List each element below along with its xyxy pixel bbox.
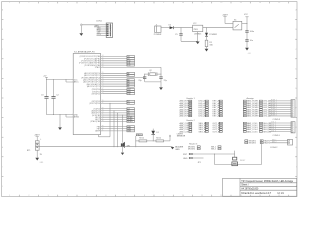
wire down to C5 <box>180 28 182 34</box>
wire from IC pin down to rail 2 <box>117 113 119 147</box>
svg-text:H: H <box>2 147 4 149</box>
IC1 pin XTAL2 wire to crystal <box>101 77 103 79</box>
svg-text:Header 3: Header 3 <box>189 144 198 146</box>
svg-text:J: J <box>2 186 3 188</box>
svg-text:1: 1 <box>9 195 10 197</box>
wire C5 to ground rail <box>180 35 182 41</box>
resistor row 6 to CON2 <box>243 111 246 113</box>
svg-text:18: 18 <box>102 64 104 66</box>
svg-text:+BATT: +BATT <box>222 14 229 17</box>
capacitor C2 lower lead <box>53 98 55 114</box>
svg-text:D3: D3 <box>127 103 129 105</box>
svg-text:9: 9 <box>163 2 164 4</box>
svg-text:RESET: RESET <box>240 160 245 162</box>
ground below R1 <box>205 49 209 52</box>
diode D1 <box>151 131 155 135</box>
crystal Q2 16MHz <box>148 72 157 76</box>
svg-text:8: 8 <box>144 2 145 4</box>
IC1 right-side pins group E <box>101 100 103 102</box>
svg-text:21: 21 <box>102 74 104 76</box>
svg-text:JP1: JP1 <box>198 162 201 164</box>
svg-text:ROW_2: ROW_2 <box>271 102 277 104</box>
svg-text:KiCad E.D.A. eeschema 4.0.7: KiCad E.D.A. eeschema 4.0.7 <box>241 192 272 195</box>
svg-text:PIEZO: PIEZO <box>137 135 143 137</box>
resistor row 8 to CON2 <box>243 115 246 117</box>
capacitor C4 <box>245 40 248 41</box>
svg-text:SW_1: SW_1 <box>272 139 276 141</box>
svg-text:10: 10 <box>182 2 184 4</box>
IC1 pin XTAL1 wire to crystal <box>101 66 103 68</box>
svg-text:37: 37 <box>102 118 104 120</box>
svg-text:VCC: VCC <box>244 14 249 16</box>
svg-text:11: 11 <box>201 195 203 197</box>
speaker SP1 <box>121 142 125 148</box>
wire AVCC vertical <box>65 80 67 82</box>
ground below speaker <box>121 153 124 155</box>
svg-text:(INT0)PD2: (INT0)PD2 <box>92 93 100 95</box>
capacitor C7 <box>159 77 162 78</box>
ground below crystal <box>159 87 163 90</box>
svg-text:+: + <box>40 138 42 140</box>
vertical from rail up to label <box>135 136 137 147</box>
svg-text:A: A <box>2 9 4 12</box>
svg-text:10u: 10u <box>250 40 253 42</box>
svg-text:100n: 100n <box>250 31 254 33</box>
svg-text:17: 17 <box>102 62 104 64</box>
resistor row 7 to CON2 <box>243 113 246 115</box>
svg-text:9: 9 <box>163 195 164 197</box>
title block <box>223 178 297 196</box>
svg-text:38: 38 <box>102 120 104 122</box>
svg-text:B: B <box>2 29 4 31</box>
svg-text:COL_4: COL_4 <box>271 128 276 130</box>
speaker ground stub <box>122 147 124 153</box>
svg-text:5: 5 <box>86 2 87 4</box>
svg-text:4: 4 <box>110 31 111 33</box>
svg-text:28: 28 <box>102 90 104 92</box>
switch row 1 to CON4 <box>245 140 248 142</box>
net labels at CON1 <box>94 25 101 36</box>
svg-text:6: 6 <box>105 195 106 197</box>
svg-text:ROW_1: ROW_1 <box>271 100 277 102</box>
wire diode to regulator <box>173 27 192 29</box>
ground below battery <box>35 158 39 161</box>
svg-text:12: 12 <box>220 2 222 4</box>
wire LED to R1 <box>206 36 208 40</box>
wire switch to VCC node <box>242 23 247 25</box>
svg-text:E: E <box>2 88 4 90</box>
power flag +BATT <box>223 17 226 24</box>
ground below C4 <box>245 48 249 51</box>
connector CON3 <box>291 122 295 133</box>
IC1 left-side pin GND <box>70 114 73 116</box>
svg-text:2: 2 <box>28 2 29 4</box>
svg-text:I: I <box>2 166 3 168</box>
ground rail under crystal <box>160 78 162 82</box>
ground below CON1 <box>79 33 83 36</box>
svg-text:SENSOR: SENSOR <box>177 136 186 138</box>
wire to crystal ground <box>160 82 162 87</box>
svg-text:7: 7 <box>125 2 126 4</box>
capacitor C2 leads <box>53 80 55 97</box>
svg-text:36: 36 <box>102 116 104 118</box>
svg-text:30: 30 <box>102 100 104 102</box>
svg-text:5: 5 <box>110 33 111 35</box>
svg-text:35: 35 <box>102 114 104 116</box>
svg-text:2: 2 <box>28 195 29 197</box>
svg-text:(XCK/T0)PD4: (XCK/T0)PD4 <box>89 103 100 105</box>
resistor row 3 to CON3 <box>243 127 246 129</box>
svg-text:ROW3: ROW3 <box>127 121 132 123</box>
svg-text:GND: GND <box>183 158 188 160</box>
ground below regulator <box>196 42 200 45</box>
svg-text:MODE2: MODE2 <box>188 149 196 151</box>
svg-text:XTAL1: XTAL1 <box>95 66 100 69</box>
regulator ground pin wire <box>197 32 199 42</box>
ground rail below caps <box>47 114 71 116</box>
svg-text:ROW_3: ROW_3 <box>271 104 277 106</box>
svg-text:12: 12 <box>220 195 222 197</box>
connector CON4 <box>288 139 293 145</box>
svg-text:C3: C3 <box>41 95 43 97</box>
svg-text:A5: A5 <box>127 85 129 88</box>
net label box above rail <box>136 134 142 136</box>
ground rail wire <box>181 40 198 42</box>
svg-text:MODE2: MODE2 <box>249 143 257 145</box>
svg-text:2: 2 <box>110 26 111 28</box>
svg-text:5: 5 <box>86 195 87 197</box>
power flag above battery <box>36 137 39 141</box>
svg-text:1: 1 <box>110 24 111 26</box>
wire rail to R3 <box>120 146 173 148</box>
wire lower horizontal <box>215 164 262 166</box>
svg-text:R3 1k: R3 1k <box>139 138 144 140</box>
wire to R3 <box>136 140 139 142</box>
svg-text:3: 3 <box>48 195 49 197</box>
wire R1 to ground <box>206 47 208 49</box>
svg-text:COL_2: COL_2 <box>271 124 276 126</box>
svg-text:GND: GND <box>40 162 44 164</box>
svg-text:POWER: POWER <box>154 34 162 36</box>
wire switch S2 top <box>234 151 236 157</box>
svg-text:RST: RST <box>183 154 188 156</box>
svg-text:ROW_5: ROW_5 <box>271 108 277 110</box>
IC1 left-side pin VCC <box>70 79 73 81</box>
svg-text:I: I <box>296 166 297 168</box>
svg-text:40: 40 <box>102 127 104 129</box>
svg-text:41: 41 <box>102 130 104 132</box>
connector CON2 <box>291 100 295 118</box>
wire flag to switch <box>225 23 233 25</box>
svg-text:33: 33 <box>102 109 104 111</box>
svg-text:330: 330 <box>209 45 213 47</box>
wire VCC node down to caps <box>246 24 248 31</box>
wire to LED D3 <box>206 28 208 33</box>
svg-text:+BATT: +BATT <box>34 134 40 137</box>
wire from IC pin down to speaker <box>122 115 124 143</box>
svg-text:22p: 22p <box>138 80 141 82</box>
svg-text:TR: Frequenzmesser, MODE-Switc: TR: Frequenzmesser, MODE-Switch, LED-Anz… <box>241 180 294 183</box>
svg-text:3: 3 <box>110 29 111 31</box>
junction node <box>180 26 183 29</box>
svg-text:CTS: CTS <box>97 34 102 36</box>
svg-text:R4 1k: R4 1k <box>156 138 161 140</box>
svg-text:7805: 7805 <box>193 29 198 31</box>
capacitor C1 <box>245 31 248 32</box>
svg-text:CON2-8: CON2-8 <box>273 119 281 121</box>
switch row 2 to CON4 <box>245 142 248 144</box>
svg-text:Anzeige: Anzeige <box>247 97 255 100</box>
svg-text:D1: D1 <box>156 132 158 134</box>
svg-text:SW3: SW3 <box>127 131 131 133</box>
IC1 left-side pin AGND <box>66 116 73 118</box>
wire horizontal stub <box>99 136 111 138</box>
svg-text:(XTAL1)PB6: (XTAL1)PB6 <box>90 120 100 123</box>
wire XTAL2 up to crystal <box>144 74 146 77</box>
svg-text:25: 25 <box>102 83 104 85</box>
svg-text:20: 20 <box>102 72 104 74</box>
svg-text:CON1: CON1 <box>96 21 103 23</box>
battery BT1 <box>35 141 39 150</box>
resistor row 1 to CON2 <box>243 100 246 102</box>
capacitor C3 lower lead <box>46 98 48 114</box>
wire to ground from CON1 <box>80 26 82 33</box>
battery bottom lead <box>36 150 38 157</box>
svg-text:IC1 ATMEGA328P-PU: IC1 ATMEGA328P-PU <box>74 50 95 53</box>
svg-text:4: 4 <box>67 2 68 4</box>
svg-text:J1: J1 <box>156 24 158 26</box>
svg-text:6: 6 <box>110 35 111 37</box>
svg-text:AREF: AREF <box>95 130 100 133</box>
connector CON1 pin wires <box>82 25 107 36</box>
svg-text:COL_1: COL_1 <box>271 122 276 124</box>
wire C1 to C4 <box>246 32 248 39</box>
wire AGND vertical <box>65 115 67 117</box>
svg-text:11: 11 <box>201 2 203 4</box>
battery output wire <box>39 146 120 148</box>
resistor R3 <box>139 140 147 142</box>
LED D3 <box>205 33 208 36</box>
svg-text:29: 29 <box>102 92 104 94</box>
svg-text:Id: 1/1: Id: 1/1 <box>278 193 285 195</box>
capacitor C3 leads <box>46 80 48 97</box>
IC1 right-side pins group C <box>101 72 103 74</box>
IC1 right-side pins group A <box>101 56 103 58</box>
ground below caps <box>58 127 62 130</box>
wire regulator output to switch <box>203 27 233 29</box>
svg-text:15: 15 <box>102 57 104 59</box>
svg-text:24: 24 <box>102 81 104 83</box>
capacitor C5 <box>179 34 182 35</box>
svg-text:AVCC: AVCC <box>74 81 80 84</box>
svg-text:D12: D12 <box>127 65 130 67</box>
wire XTAL1 down to crystal <box>160 67 162 74</box>
svg-text:SEL2: SEL2 <box>211 149 217 151</box>
svg-text:3: 3 <box>48 2 49 4</box>
resistor row 3 to CON2 <box>243 104 246 106</box>
riser from RST wire <box>214 154 216 165</box>
resistor row 1 to CON3 <box>243 122 246 124</box>
svg-text:16: 16 <box>102 59 104 61</box>
svg-text:31: 31 <box>102 102 104 104</box>
connector J1 power jack <box>155 26 161 32</box>
svg-text:Sheet: /: Sheet: / <box>241 184 249 187</box>
svg-text:F: F <box>2 108 4 110</box>
wire to ground symbol <box>59 115 61 128</box>
resistor R4 <box>156 140 164 142</box>
svg-text:POWER: POWER <box>209 34 217 36</box>
svg-text:D2: D2 <box>169 24 172 26</box>
resistor row 4 to CON3 <box>243 129 246 131</box>
riser to CON4 row <box>261 141 263 165</box>
power flag +5V left <box>45 77 48 79</box>
connector CON1 (serial header) <box>106 23 112 38</box>
switch S2 <box>232 157 238 166</box>
svg-text:10: 10 <box>182 195 184 197</box>
svg-text:ROW_4: ROW_4 <box>271 106 277 108</box>
svg-text:7: 7 <box>125 195 126 197</box>
svg-text:C: C <box>2 49 4 51</box>
svg-text:ANZ_ROW8: ANZ_ROW8 <box>247 115 259 118</box>
svg-text:32: 32 <box>102 107 104 109</box>
crystal leads <box>145 73 149 75</box>
svg-text:+5V: +5V <box>248 53 252 55</box>
wire from IC pin down (left drop) <box>109 103 111 136</box>
svg-text:34: 34 <box>102 112 104 114</box>
svg-text:ROW_8: ROW_8 <box>271 115 277 117</box>
svg-text:GND: GND <box>175 149 180 151</box>
svg-text:3V: 3V <box>40 154 43 156</box>
svg-text:D: D <box>2 68 4 70</box>
riser at node <box>169 136 171 141</box>
resistor row 5 to CON2 <box>243 109 246 111</box>
wire VCC rail to IC <box>47 79 71 81</box>
wire C4 to ground <box>246 41 248 47</box>
capacitor C3 <box>44 97 48 99</box>
svg-text:1: 1 <box>9 2 10 4</box>
svg-text:26: 26 <box>102 85 104 87</box>
capacitor C6 lower lead <box>144 78 146 82</box>
svg-text:COL_3: COL_3 <box>271 126 276 128</box>
svg-text:A4 29700x21000: A4 29700x21000 <box>241 188 259 191</box>
sheet border frame <box>2 2 297 197</box>
svg-text:15: 15 <box>278 2 280 4</box>
power flag VCC <box>245 17 248 24</box>
IC1 right-side pins group F <box>101 108 103 110</box>
svg-text:ROW_7: ROW_7 <box>271 112 277 114</box>
svg-text:39: 39 <box>102 125 104 127</box>
capacitor C2 <box>51 97 55 99</box>
IC1 left-side pin AVCC <box>66 81 73 83</box>
svg-text:BT1: BT1 <box>27 150 30 152</box>
svg-text:ANZ_COL5: ANZ_COL5 <box>247 130 258 133</box>
wire R4 to node <box>164 140 170 142</box>
svg-text:SP1: SP1 <box>127 145 131 147</box>
svg-text:C2: C2 <box>56 95 58 97</box>
IC1 right-side pins group D <box>101 88 103 90</box>
svg-text:19: 19 <box>102 66 104 68</box>
capacitor C6 <box>143 77 146 78</box>
diode D1 stem <box>152 129 154 131</box>
svg-text:C5: C5 <box>175 34 178 36</box>
svg-text:CON4-2: CON4-2 <box>270 147 278 149</box>
capacitor C7 lead <box>160 74 162 77</box>
wire R3 to D1 node <box>147 140 156 142</box>
svg-text:Q2: Q2 <box>149 70 152 72</box>
no-connect flag at CON1 pin 1 <box>80 24 82 26</box>
svg-text:13: 13 <box>240 2 242 4</box>
svg-text:G: G <box>2 127 4 129</box>
ground at right end of rail <box>171 147 174 149</box>
arrow mark <box>169 135 171 137</box>
junction at LED branch <box>205 26 208 29</box>
regulator IC2 <box>193 25 203 31</box>
resistor row 2 to CON2 <box>243 102 246 104</box>
resistor row 4 to CON2 <box>243 107 246 109</box>
svg-text:(ADC5/SCL)PC5: (ADC5/SCL)PC5 <box>87 85 100 88</box>
svg-text:14: 14 <box>259 2 261 4</box>
diode D2 <box>170 26 174 29</box>
svg-text:ROW_6: ROW_6 <box>271 110 277 112</box>
svg-text:LM7805: LM7805 <box>194 33 202 35</box>
svg-text:27: 27 <box>102 88 104 90</box>
svg-text:8: 8 <box>144 195 145 197</box>
IC1 right-side pins group G <box>101 126 103 128</box>
svg-text:COL_5: COL_5 <box>271 130 276 132</box>
svg-text:4: 4 <box>67 195 68 197</box>
resistor row 5 to CON3 <box>243 131 246 133</box>
svg-text:14: 14 <box>102 55 104 57</box>
resistor row 2 to CON3 <box>243 124 246 126</box>
svg-text:SW_2: SW_2 <box>272 141 276 143</box>
svg-text:22: 22 <box>102 76 104 78</box>
svg-text:AGND: AGND <box>74 116 80 119</box>
svg-text:CON3-5: CON3-5 <box>273 135 281 137</box>
svg-text:A1: A1 <box>127 74 129 77</box>
switch S1 <box>233 21 242 30</box>
wire from IC pin down to rail <box>113 111 115 147</box>
svg-text:6: 6 <box>105 2 106 4</box>
svg-text:IC2: IC2 <box>193 23 197 25</box>
resistor R1 <box>205 40 208 46</box>
svg-text:22p: 22p <box>164 80 167 82</box>
wire jack to diode <box>161 27 170 29</box>
svg-text:23: 23 <box>102 78 104 80</box>
